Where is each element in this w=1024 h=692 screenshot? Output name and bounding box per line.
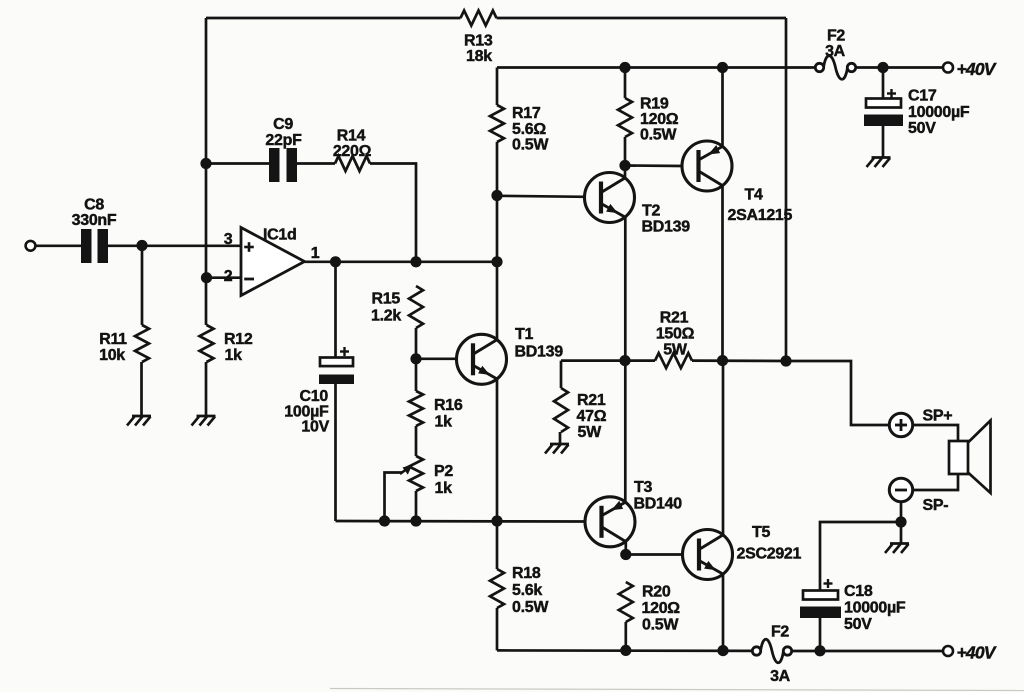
arrow P2 wiper bbox=[400, 470, 406, 475]
op-amp minus marking bbox=[244, 278, 254, 281]
svg-text:5W: 5W bbox=[663, 342, 688, 359]
capacitor C18 bbox=[803, 591, 838, 600]
resistor R14 bbox=[335, 156, 370, 171]
svg-text:0.5W: 0.5W bbox=[640, 127, 677, 144]
node feedback junction bbox=[200, 158, 211, 169]
wire T1 collector lead bbox=[496, 262, 499, 340]
wire T4 collector lead bbox=[721, 186, 724, 361]
ground R11 bbox=[132, 415, 151, 418]
terminal SP- bbox=[889, 478, 912, 501]
svg-text:0.5W: 0.5W bbox=[642, 617, 679, 634]
svg-text:10000µF: 10000µF bbox=[844, 600, 906, 617]
resistor R12 bbox=[200, 325, 214, 362]
wire T2 T4 base link bbox=[625, 164, 683, 167]
node C17 junction bbox=[877, 62, 888, 73]
scan artifact bottom edge bbox=[330, 689, 1024, 691]
potentiometer P2 bbox=[409, 456, 423, 491]
svg-text:10000µF: 10000µF bbox=[908, 104, 970, 121]
node T2 collector junction bbox=[619, 160, 630, 171]
resistor R11 bbox=[135, 325, 149, 362]
svg-text:T4: T4 bbox=[745, 187, 763, 204]
svg-text:SP-: SP- bbox=[923, 497, 949, 514]
wire fuse to terminal bottom bbox=[792, 650, 943, 653]
node T5 emitter junction bbox=[717, 645, 728, 656]
svg-text:T5: T5 bbox=[752, 524, 770, 541]
wire output to SP+ bbox=[786, 361, 889, 425]
wire R18 bottom lead bbox=[496, 608, 499, 650]
svg-text:R21: R21 bbox=[660, 310, 689, 327]
wire R19 top lead bbox=[624, 68, 627, 99]
wire T2 base bbox=[497, 196, 585, 197]
wire R19 to junction bbox=[624, 137, 627, 166]
svg-text:F2: F2 bbox=[771, 624, 789, 641]
wire SP- to ground junction bbox=[900, 502, 903, 522]
resistor R15 bbox=[409, 286, 423, 328]
svg-text:2SC2921: 2SC2921 bbox=[737, 546, 802, 563]
wire fuse to terminal top bbox=[856, 66, 943, 69]
svg-text:SP+: SP+ bbox=[923, 408, 953, 425]
ground R12 bbox=[197, 415, 216, 418]
wire op-amp output bbox=[305, 260, 498, 263]
svg-text:R13: R13 bbox=[464, 33, 493, 50]
node P2 junction bbox=[410, 515, 421, 526]
wire P2 wiper bbox=[385, 473, 403, 522]
wire T3 collector lead bbox=[624, 542, 627, 555]
op-amp IC1d bbox=[241, 228, 305, 296]
svg-text:1: 1 bbox=[311, 245, 320, 262]
wire driver output row bbox=[561, 359, 655, 362]
node output node junction bbox=[780, 355, 791, 366]
svg-text:150Ω: 150Ω bbox=[656, 326, 695, 343]
wire T1 emitter lead bbox=[496, 379, 499, 521]
wire upper rail left bbox=[497, 66, 815, 69]
capacitor C18 plus bbox=[824, 582, 833, 584]
node speaker ground junction bbox=[895, 516, 906, 527]
svg-text:R14: R14 bbox=[337, 128, 366, 145]
node C18 junction bbox=[814, 645, 825, 656]
wire C18 bottom lead bbox=[819, 618, 822, 651]
wire feedback left column bbox=[205, 18, 208, 325]
wire SP- to speaker bbox=[913, 474, 958, 490]
capacitor C8 bbox=[81, 229, 92, 263]
svg-text:R12: R12 bbox=[224, 331, 253, 348]
wire T2 collector lead bbox=[624, 166, 627, 179]
svg-text:1k: 1k bbox=[435, 480, 453, 497]
svg-text:C9: C9 bbox=[273, 116, 293, 133]
wire R15 to R16 junction bbox=[415, 328, 418, 391]
transistor T1 bbox=[457, 334, 507, 384]
wire T4 emitter lead bbox=[721, 68, 724, 147]
op-amp plus marking bbox=[244, 246, 254, 249]
wire C9 left lead bbox=[206, 162, 269, 165]
capacitor C17 plus bbox=[887, 92, 896, 94]
svg-text:F2: F2 bbox=[827, 28, 845, 45]
node T1 base junction bbox=[410, 353, 421, 364]
svg-text:BD140: BD140 bbox=[634, 496, 683, 513]
resistor R18 bbox=[490, 569, 504, 608]
svg-text:3A: 3A bbox=[825, 43, 846, 60]
terminal SP+ bbox=[889, 413, 912, 436]
wire R11 lead bbox=[141, 246, 144, 326]
wire C9 to R14 bbox=[297, 162, 335, 165]
wire C10 bottom lead bbox=[334, 384, 337, 521]
svg-text:R19: R19 bbox=[640, 96, 669, 113]
wire pin 2 lead bbox=[207, 276, 242, 279]
wire mid rail bbox=[336, 520, 587, 523]
wire top rail left segment bbox=[206, 17, 461, 20]
wire C17 top lead bbox=[882, 68, 885, 99]
svg-text:0.5W: 0.5W bbox=[512, 137, 549, 154]
svg-text:C8: C8 bbox=[84, 197, 104, 214]
svg-text:T3: T3 bbox=[634, 479, 652, 496]
svg-text:R20: R20 bbox=[642, 584, 671, 601]
svg-text:T2: T2 bbox=[642, 203, 660, 220]
wire row to output node bbox=[692, 359, 786, 362]
node output R15 junction bbox=[410, 256, 421, 267]
svg-text:BD139: BD139 bbox=[515, 344, 564, 361]
svg-text:330nF: 330nF bbox=[72, 212, 117, 229]
resistor R21 150 bbox=[655, 353, 692, 368]
svg-text:P2: P2 bbox=[434, 463, 453, 480]
wire C17 to ground bbox=[882, 126, 885, 157]
transistor T2 bbox=[585, 173, 635, 223]
node R20 bottom junction bbox=[620, 645, 631, 656]
svg-text:R17: R17 bbox=[512, 105, 541, 122]
svg-text:3: 3 bbox=[224, 231, 233, 248]
svg-text:10k: 10k bbox=[99, 347, 125, 364]
wire R12 to ground bbox=[205, 362, 208, 416]
wire P2 bottom lead bbox=[415, 491, 418, 521]
wire R21 47 to ground bbox=[559, 432, 562, 444]
svg-text:2SA1215: 2SA1215 bbox=[728, 207, 793, 224]
ground C17 bbox=[872, 156, 891, 159]
node T3 collector junction bbox=[620, 549, 631, 560]
wire T1 base bbox=[416, 357, 458, 360]
node T4 emitter junction bbox=[717, 62, 728, 73]
capacitor C9 bbox=[269, 148, 280, 182]
wire C18 top lead bbox=[820, 522, 901, 591]
node T2 base junction bbox=[491, 190, 502, 201]
wire R18 top lead bbox=[496, 521, 499, 569]
svg-text:220Ω: 220Ω bbox=[333, 143, 372, 160]
wire R21 47 top lead bbox=[560, 361, 563, 388]
svg-text:1.2k: 1.2k bbox=[371, 308, 401, 325]
svg-text:+40V: +40V bbox=[957, 59, 997, 79]
svg-text:BD139: BD139 bbox=[642, 219, 691, 236]
svg-text:22pF: 22pF bbox=[265, 132, 302, 149]
svg-text:R11: R11 bbox=[99, 331, 127, 348]
svg-text:18k: 18k bbox=[466, 48, 492, 65]
resistor R20 bbox=[619, 582, 633, 622]
wire right output column bbox=[785, 18, 788, 361]
svg-text:50V: 50V bbox=[908, 120, 936, 137]
resistor R21 47 bbox=[554, 388, 568, 432]
wire T3 T5 base link bbox=[626, 553, 684, 556]
terminal +40V top bbox=[943, 63, 953, 73]
resistor R19 bbox=[618, 98, 632, 137]
capacitor C17 bbox=[866, 99, 901, 108]
svg-text:0.5W: 0.5W bbox=[512, 599, 549, 616]
node P2 wiper junction bbox=[379, 515, 390, 526]
wire R16 to P2 bbox=[415, 426, 418, 456]
resistor R17 bbox=[490, 105, 504, 142]
svg-text:1k: 1k bbox=[435, 414, 453, 431]
terminal input bbox=[26, 241, 36, 251]
svg-text:120Ω: 120Ω bbox=[642, 600, 681, 617]
svg-text:50V: 50V bbox=[844, 616, 872, 633]
node T1 emitter junction bbox=[491, 515, 502, 526]
speaker bbox=[949, 441, 968, 474]
fuse F2 top bbox=[815, 63, 823, 71]
wire R11 to ground bbox=[140, 362, 143, 416]
wire input to C8 bbox=[35, 244, 81, 247]
svg-text:T1: T1 bbox=[515, 326, 533, 343]
svg-text:C17: C17 bbox=[908, 88, 937, 105]
svg-text:R18: R18 bbox=[512, 565, 541, 582]
terminal +40V bottom bbox=[943, 646, 953, 656]
capacitor C10 bbox=[320, 358, 353, 367]
svg-text:5.6Ω: 5.6Ω bbox=[512, 121, 546, 138]
node inverting input junction bbox=[201, 272, 212, 283]
node output collector junction bbox=[491, 256, 502, 267]
node R19 top junction bbox=[619, 62, 630, 73]
transistor T3 bbox=[585, 497, 635, 547]
svg-text:5W: 5W bbox=[578, 424, 603, 441]
wire C8 to op-amp pin 3 bbox=[108, 244, 241, 247]
node row T2T3 junction bbox=[619, 355, 630, 366]
svg-text:120Ω: 120Ω bbox=[640, 111, 679, 128]
wire bottom rail left bbox=[497, 649, 752, 652]
transistor T4 bbox=[682, 141, 732, 191]
svg-text:10V: 10V bbox=[301, 419, 329, 436]
svg-text:3A: 3A bbox=[770, 668, 791, 685]
wire T5 collector lead bbox=[722, 361, 725, 535]
wire R20 bottom lead bbox=[624, 622, 627, 650]
wire SP+ to speaker bbox=[913, 425, 958, 441]
node output C10 junction bbox=[330, 256, 341, 267]
wire C10 top lead bbox=[334, 262, 337, 358]
fuse F2 bottom bbox=[752, 647, 760, 655]
svg-text:47Ω: 47Ω bbox=[577, 408, 607, 425]
svg-text:5.6k: 5.6k bbox=[512, 582, 542, 599]
transistor T5 bbox=[683, 530, 733, 580]
wire T2 emitter to T3 bbox=[624, 217, 627, 502]
svg-text:IC1d: IC1d bbox=[263, 227, 296, 244]
svg-text:1k: 1k bbox=[225, 347, 243, 364]
wire R17 to junction bbox=[496, 142, 499, 195]
wire T5 emitter lead bbox=[722, 574, 725, 650]
wire R17 top lead bbox=[496, 68, 499, 106]
svg-text:R21: R21 bbox=[577, 392, 606, 409]
svg-text:R15: R15 bbox=[372, 291, 401, 308]
resistor R13 bbox=[461, 11, 497, 26]
node input junction bbox=[136, 240, 147, 251]
resistor R16 bbox=[409, 391, 423, 426]
node row T4T5 junction bbox=[717, 355, 728, 366]
ground speaker bbox=[900, 522, 903, 543]
wire R14 to output column bbox=[370, 164, 416, 263]
svg-text:C18: C18 bbox=[844, 583, 873, 600]
svg-text:+40V: +40V bbox=[957, 643, 997, 663]
wire top rail right segment bbox=[497, 17, 787, 20]
capacitor C10 plus bbox=[340, 350, 349, 352]
wire R17 junction to output node bbox=[496, 196, 499, 262]
svg-text:R16: R16 bbox=[434, 397, 463, 414]
ground R21 47 bbox=[550, 443, 569, 446]
svg-text:C10: C10 bbox=[300, 388, 329, 405]
